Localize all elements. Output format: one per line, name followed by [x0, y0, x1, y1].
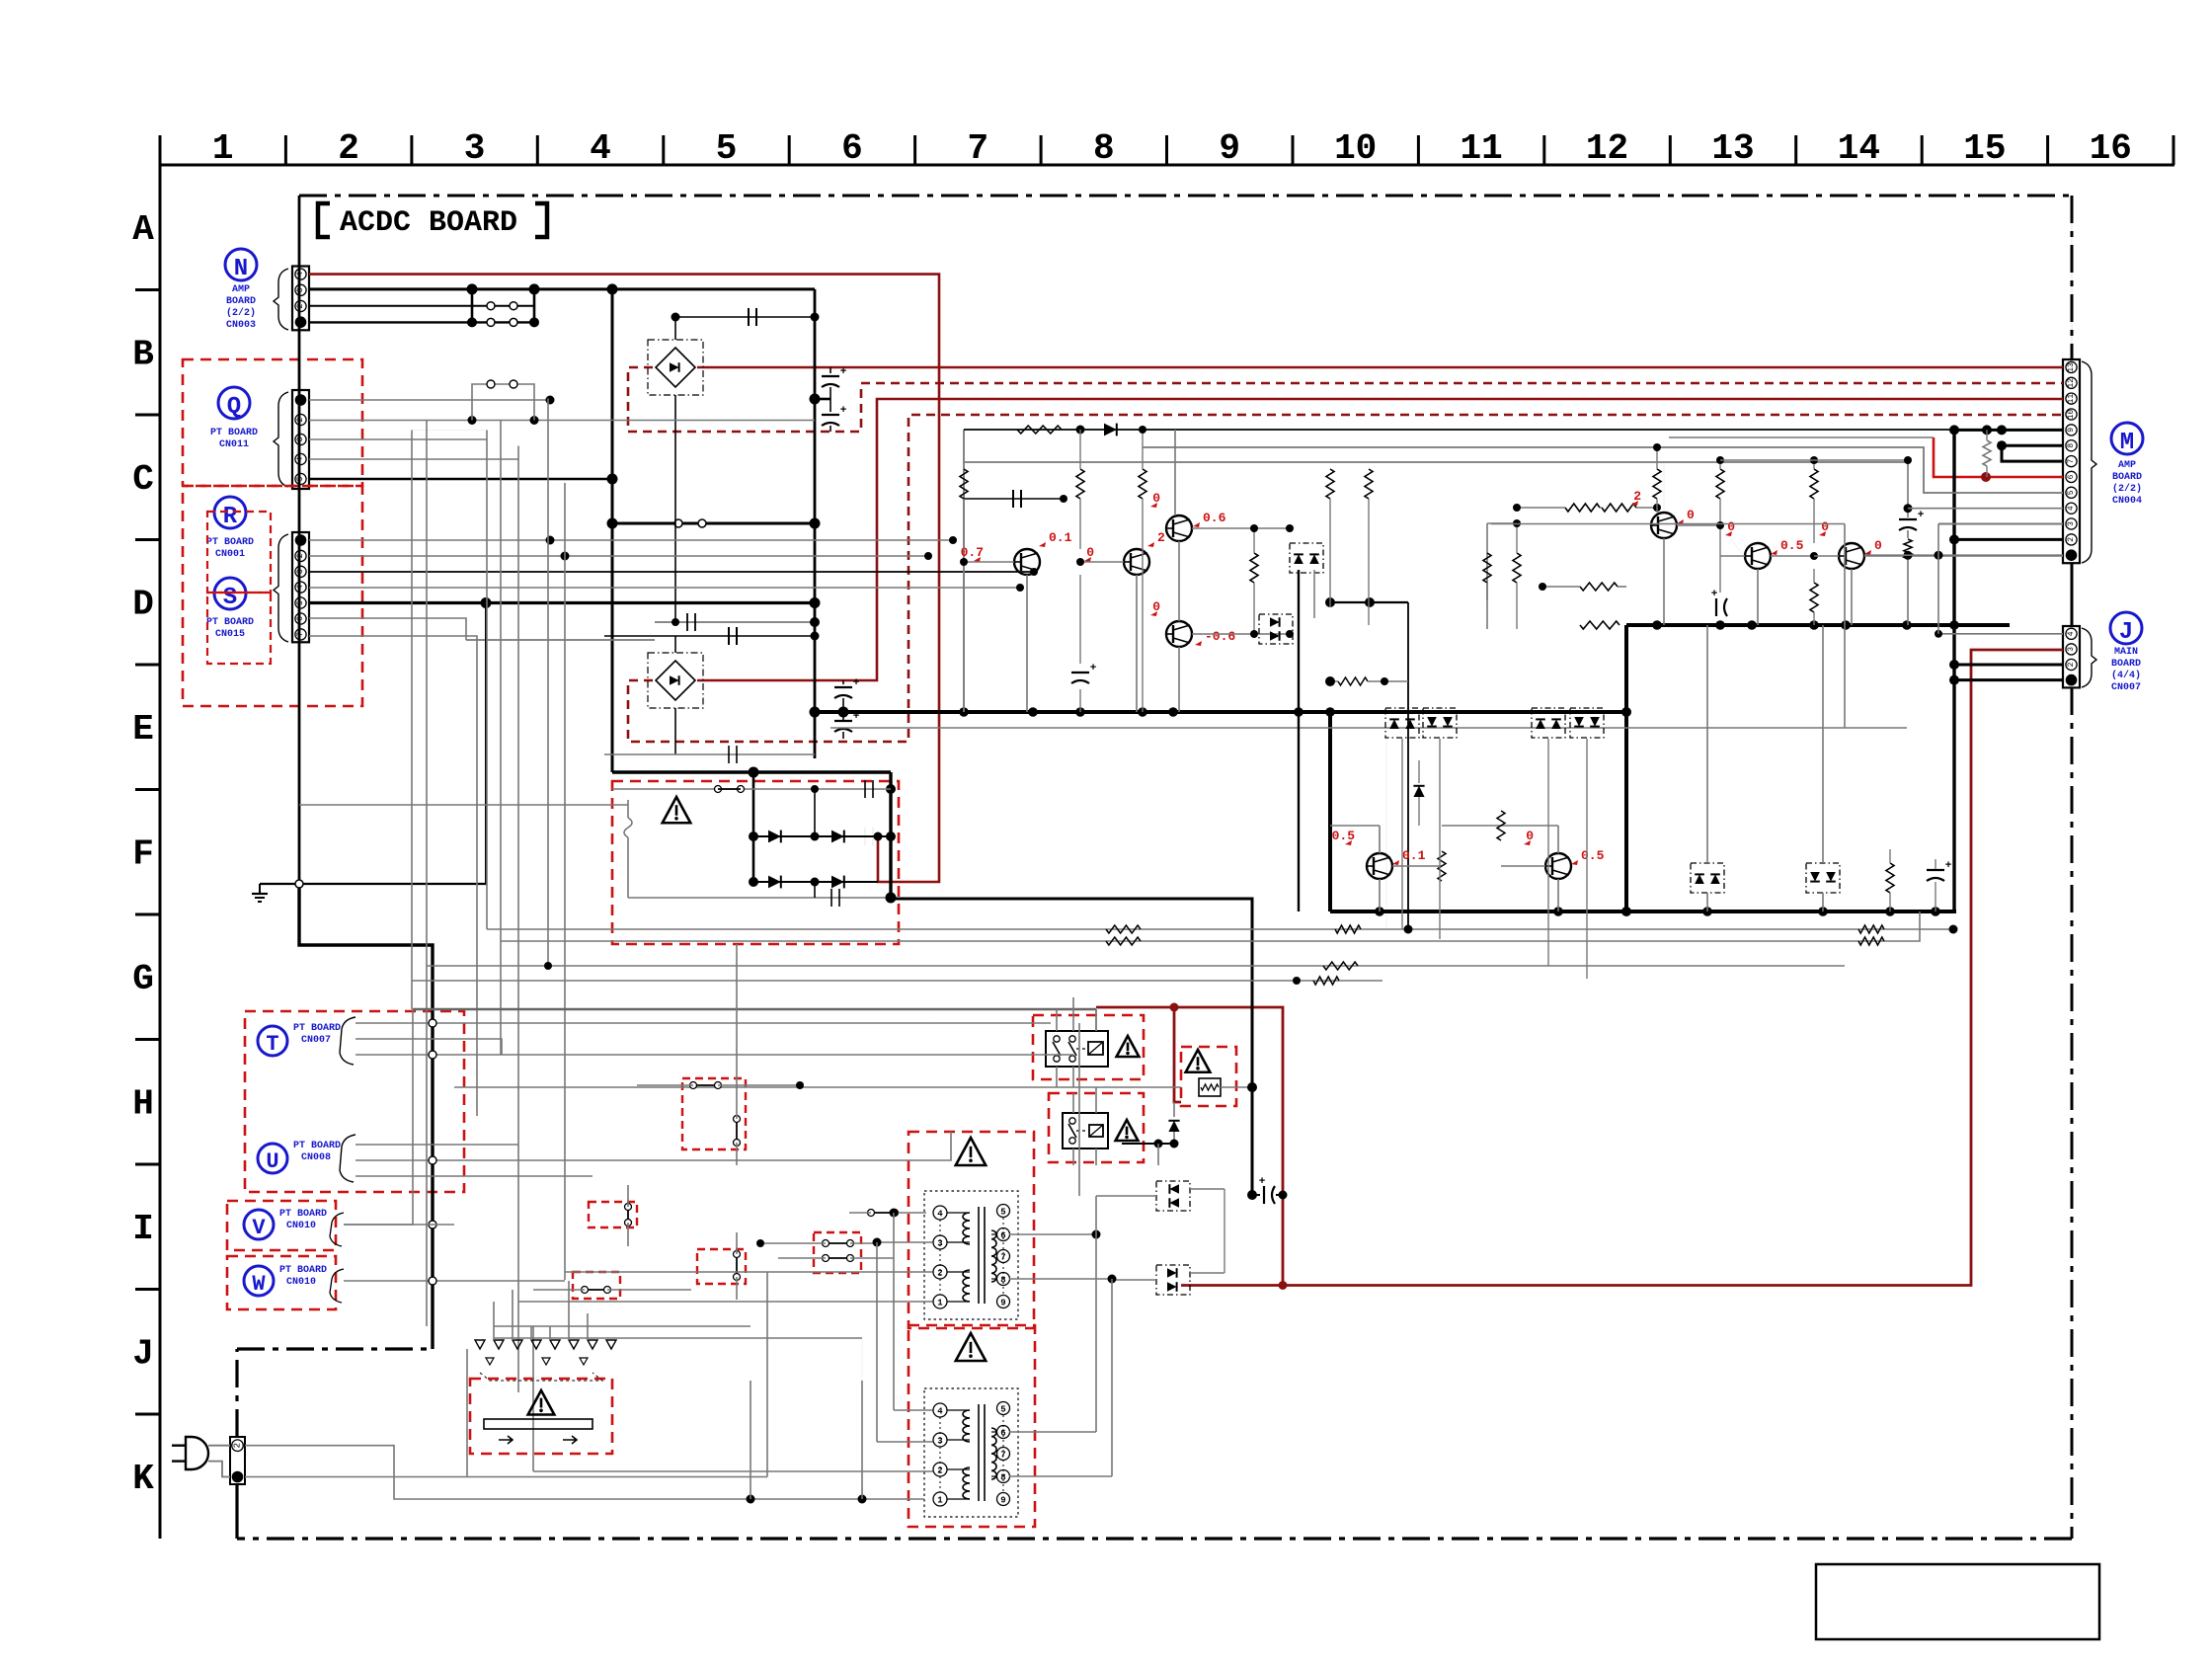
svg-text:0: 0 [1152, 599, 1160, 614]
wire pack low out [1190, 1272, 1224, 1274]
bridge2 bottom wire [674, 708, 676, 754]
red box jumper D [573, 1272, 620, 1299]
wire T2p4 [894, 1409, 933, 1411]
svg-text:11: 11 [2067, 394, 2076, 404]
svg-text:15: 15 [1963, 128, 2006, 169]
wire x1331 [1313, 570, 1315, 618]
svg-text:4: 4 [2067, 631, 2076, 636]
wire T2p3 [877, 1441, 933, 1443]
red box V [227, 1201, 336, 1250]
svg-text:ACDC BOARD: ACDC BOARD [340, 206, 517, 240]
board outline top [299, 195, 2072, 198]
connector N label [225, 249, 257, 280]
wire red relay drop [1174, 1007, 1181, 1102]
red box jumper C [697, 1249, 746, 1284]
svg-text:F: F [132, 834, 154, 875]
svg-text:I: I [132, 1209, 154, 1249]
transistor QF2 [1545, 853, 1571, 879]
res mid3 [1139, 469, 1146, 499]
svg-text:0: 0 [1152, 491, 1160, 506]
vert x888 [876, 1242, 878, 1442]
connector N strip [292, 267, 309, 331]
thermistor sym [1199, 1078, 1221, 1096]
verticals mid [1026, 575, 1028, 712]
wire Q5 [309, 478, 612, 481]
wire T1p6 [1009, 1233, 1096, 1235]
ecap F right [1927, 869, 1944, 871]
svg-text:5: 5 [296, 476, 305, 481]
svg-text:+: + [1259, 1176, 1266, 1188]
svg-text:3: 3 [296, 287, 305, 292]
dpack mid right [1259, 614, 1293, 644]
connector Q label [218, 387, 250, 419]
wire J1 [1954, 678, 2063, 681]
svg-text:CN004: CN004 [2112, 496, 2142, 507]
svg-text:PT BOARD: PT BOARD [279, 1209, 327, 1220]
svg-text:8: 8 [2067, 443, 2076, 448]
grey y466 [1720, 459, 1908, 461]
res mid6 [1250, 553, 1258, 583]
wire pack low [1112, 1279, 1156, 1281]
jumper E1 [826, 1242, 850, 1244]
svg-text:S: S [223, 585, 237, 611]
wire red dashed M12 [628, 367, 2063, 432]
wire y630 grey [655, 621, 815, 623]
svg-text:0: 0 [1086, 545, 1094, 560]
connector V label [244, 1210, 274, 1239]
svg-text:11: 11 [1460, 128, 1502, 169]
vert x1932 group [1907, 460, 1909, 517]
svg-text:AMP: AMP [2118, 460, 2136, 471]
svg-text:5: 5 [716, 128, 738, 169]
jumper A top [693, 1084, 718, 1086]
dpack bus A p2 [1423, 708, 1457, 738]
T1 warning [956, 1138, 986, 1165]
svg-text:3: 3 [296, 436, 305, 441]
wire M1 [1864, 554, 2063, 556]
wires below packs [1385, 738, 1387, 929]
svg-text:0.6: 0.6 [1203, 511, 1226, 525]
F vert cap [814, 882, 816, 898]
relay B rect [1063, 1113, 1108, 1148]
jumper D [585, 1289, 607, 1291]
wire q3 to v1 [412, 430, 487, 432]
interlock bar [484, 1419, 592, 1429]
wire E row grey [830, 727, 1907, 729]
transistor Q mid2 [1124, 549, 1149, 575]
svg-text:6: 6 [841, 128, 863, 169]
border frame ruler [159, 135, 162, 1539]
res mid5 [1365, 469, 1373, 499]
svg-text:K: K [132, 1459, 154, 1499]
relay A warning [1117, 1036, 1140, 1057]
junctions N3 [467, 283, 478, 294]
bus C y923 [1330, 910, 1956, 913]
wire red lower H [1181, 1284, 1283, 1287]
interlock contacts2 [486, 1358, 494, 1365]
jumper A vert [736, 1119, 738, 1143]
res mid2 [1076, 469, 1084, 499]
wire V [344, 1009, 413, 1225]
ladder v7 [564, 483, 566, 1280]
transistor Q mid1 [1014, 549, 1040, 575]
connector J label [2110, 612, 2142, 644]
svg-text:BOARD: BOARD [2111, 659, 2141, 670]
svg-text:M: M [2120, 430, 2134, 456]
wire R4 [309, 587, 1020, 589]
wire base2 [1080, 561, 1124, 563]
wire left bus jog [299, 884, 433, 1349]
bridge2 top wire [674, 636, 676, 653]
wire T1p2 [565, 1271, 933, 1273]
svg-text:MAIN: MAIN [2114, 647, 2138, 658]
svg-text:0: 0 [1874, 538, 1882, 553]
vert x905 [893, 1213, 895, 1410]
ladder v6 [547, 399, 549, 967]
QF wires [1379, 879, 1381, 911]
svg-text:V: V [252, 1216, 266, 1240]
bus B y633 [1626, 623, 2010, 627]
vert x1110t [1095, 1196, 1097, 1432]
F vert x763 [752, 772, 755, 882]
connector Q brace [274, 392, 288, 487]
wire red to M6 [1934, 437, 2063, 477]
svg-text:9: 9 [1000, 1496, 1005, 1506]
svg-text:9: 9 [1000, 1299, 1005, 1308]
svg-text:10: 10 [1334, 128, 1377, 169]
grey bus y1022 [413, 1008, 1096, 1011]
svg-text:CN015: CN015 [215, 629, 245, 640]
transformer T1 [924, 1191, 1018, 1319]
F cap row1 [864, 828, 866, 845]
svg-text:+: + [1945, 860, 1952, 872]
jumper E2 [826, 1257, 850, 1259]
svg-text:4: 4 [296, 585, 305, 590]
red box F region [612, 781, 899, 944]
svg-text:14: 14 [1838, 128, 1880, 169]
wire interlock drop [493, 1302, 495, 1340]
connector M strip [2063, 359, 2080, 563]
svg-text:+: + [840, 405, 847, 417]
svg-text:CN008: CN008 [301, 1152, 331, 1163]
wire S6 [309, 618, 466, 640]
interlock arrows [499, 1436, 513, 1444]
ruler ticks [159, 135, 162, 165]
red box relay A [1033, 1015, 1144, 1079]
relay A rect [1046, 1031, 1108, 1067]
svg-text:5: 5 [1000, 1208, 1005, 1218]
ladder v2 [426, 421, 428, 1327]
wire QR2 base [1720, 555, 1745, 557]
connector U label [258, 1144, 287, 1173]
right rail [1486, 523, 1488, 600]
interlock warning [528, 1390, 555, 1415]
jumper C [736, 1254, 738, 1277]
right top res pair [1565, 504, 1600, 512]
board outline right upper [2071, 196, 2074, 361]
svg-text:AMP: AMP [232, 284, 250, 295]
bus vert x1980 [1952, 430, 1955, 911]
red box jumper E [814, 1232, 861, 1273]
transistor QR2 [1745, 543, 1771, 569]
wire Q jumper link [472, 384, 534, 421]
connector J brace [2082, 628, 2096, 687]
svg-text:3: 3 [2067, 521, 2076, 526]
svg-text:BOARD: BOARD [2112, 472, 2142, 483]
dpack mid up [1290, 543, 1323, 573]
right wire out1 [1677, 524, 1720, 526]
res rv4 [1810, 583, 1818, 612]
dpack H up [1156, 1181, 1190, 1211]
cap pair bridge1 [822, 375, 839, 377]
wire T3 [355, 1054, 1073, 1056]
wire ground row [260, 883, 487, 885]
W brace [330, 1269, 344, 1303]
wire y690 res [1338, 677, 1368, 685]
wire red bridge2 to M11 [697, 399, 2063, 680]
svg-text:13: 13 [1711, 128, 1754, 169]
wire res mid6 [1253, 528, 1255, 553]
bridge1 bottom wire [674, 395, 676, 622]
wire M5 stub [1924, 492, 2063, 494]
wire R1 [309, 539, 953, 541]
svg-text:2: 2 [1157, 530, 1165, 545]
svg-text:A: A [132, 209, 154, 250]
svg-text:Q: Q [227, 394, 241, 421]
board outline right mid [2071, 563, 2074, 626]
svg-text:PT BOARD: PT BOARD [206, 617, 254, 628]
wire R2 [309, 555, 928, 557]
svg-text:J: J [132, 1334, 154, 1375]
svg-text:R: R [223, 504, 238, 530]
svg-text:+: + [840, 366, 847, 378]
wire N1 [309, 321, 534, 323]
svg-text:2: 2 [296, 417, 305, 422]
wire red relay bus [1096, 650, 2063, 1286]
wire N3 drop x620 [611, 289, 614, 772]
res rv3 [1810, 469, 1818, 499]
svg-text:5: 5 [296, 600, 305, 605]
wire x492 gnd [485, 603, 487, 885]
right net A [1487, 522, 1517, 524]
svg-text:7: 7 [296, 632, 305, 637]
svg-text:N: N [234, 256, 248, 282]
F grey bottom [628, 897, 891, 899]
svg-text:1: 1 [212, 128, 234, 169]
wire T2p6 [1009, 1431, 1096, 1433]
wire M9 [1954, 429, 2063, 432]
wire U3 [355, 1175, 592, 1177]
svg-text:6: 6 [2067, 474, 2076, 479]
AC wires [208, 1445, 230, 1447]
F diode row2 [753, 881, 878, 883]
svg-text:-0.6: -0.6 [1205, 629, 1235, 644]
jumper B [627, 1207, 629, 1223]
svg-text:12: 12 [2067, 378, 2076, 388]
transistor QF1 [1367, 853, 1392, 879]
wire Q3 [309, 438, 487, 440]
svg-text:0: 0 [1687, 508, 1695, 522]
wire T1p3 [877, 1241, 933, 1243]
F wire left in [299, 804, 628, 806]
AC out pin1 [245, 1476, 767, 1478]
AC connector strip [230, 1437, 245, 1484]
svg-text:CN007: CN007 [301, 1035, 331, 1046]
svg-text:12: 12 [1586, 128, 1628, 169]
svg-text:4: 4 [296, 272, 305, 277]
mid rail left [963, 430, 965, 712]
relay A stubs [1056, 1009, 1058, 1031]
right bot res [1580, 621, 1619, 629]
board outline right lower [2071, 687, 2074, 1539]
svg-text:CN007: CN007 [2111, 682, 2141, 693]
wire Q1 [309, 399, 550, 401]
svg-text:8: 8 [1093, 128, 1115, 169]
svg-text:2: 2 [233, 1443, 243, 1448]
svg-text:CN003: CN003 [226, 320, 256, 331]
transistor QR3 [1839, 543, 1864, 569]
connector U brace [340, 1135, 355, 1182]
svg-text:CN001: CN001 [215, 549, 245, 560]
svg-text:4: 4 [937, 1407, 943, 1417]
svg-text:CN010: CN010 [286, 1221, 316, 1231]
H ecap [1263, 1186, 1265, 1204]
wire base1 [964, 561, 1014, 563]
svg-text:0: 0 [1821, 519, 1829, 534]
svg-text:4: 4 [937, 1210, 943, 1220]
F fuse [627, 800, 629, 818]
red box thermistor [1181, 1047, 1236, 1106]
red box interlock [470, 1379, 612, 1454]
connector S label [214, 578, 246, 609]
wire T2 [355, 1039, 502, 1055]
red box S inner [207, 593, 271, 664]
res mid1 [960, 469, 968, 499]
connector M brace [2082, 361, 2096, 563]
wire y610 right seg [1330, 601, 1408, 603]
svg-text:PT BOARD: PT BOARD [293, 1141, 341, 1151]
right wires v [1663, 538, 1665, 625]
F vert mid [814, 789, 816, 836]
V brace [330, 1213, 344, 1246]
red box RS [183, 486, 362, 706]
wire M8 [2002, 444, 2063, 447]
wire v1963 [1937, 524, 1939, 634]
svg-text:CN011: CN011 [219, 439, 249, 450]
wire pack up [1096, 1195, 1156, 1197]
svg-text:(2/2): (2/2) [2112, 483, 2142, 495]
cap mid y505 [964, 498, 1064, 500]
red box jumper B [589, 1202, 637, 1227]
svg-text:10: 10 [2067, 410, 2076, 420]
bus A y721 [815, 710, 1626, 714]
thermistor warn [1186, 1050, 1211, 1072]
connector T label [258, 1026, 287, 1056]
wire M3 [1938, 523, 2063, 525]
F thick out right [891, 899, 1252, 1195]
svg-text:9: 9 [2067, 428, 2076, 433]
svg-text:E: E [132, 709, 154, 750]
dpack F right2 [1806, 863, 1840, 893]
svg-text:2: 2 [2067, 537, 2076, 542]
AC plug [186, 1437, 208, 1469]
svg-text:0.5: 0.5 [1581, 848, 1605, 863]
interlock dashes [480, 1373, 602, 1381]
red box W [227, 1256, 336, 1309]
svg-text:0.5: 0.5 [1780, 538, 1804, 553]
svg-text:7: 7 [967, 128, 988, 169]
wire M strip top [2071, 196, 2073, 361]
svg-text:D: D [132, 585, 154, 625]
T2 warning [956, 1333, 986, 1361]
G line4 [412, 980, 1382, 982]
dpack bus A p3 [1532, 708, 1565, 738]
wire J4 [1938, 633, 2063, 635]
connector R label [214, 497, 246, 528]
dpack bus A p1 [1385, 708, 1419, 738]
G line1 [487, 928, 1953, 930]
svg-text:B: B [132, 335, 154, 375]
wire R3 [309, 571, 1034, 573]
connector RS strip [292, 532, 309, 642]
svg-text:0: 0 [1526, 829, 1534, 843]
wire bus x825 [814, 289, 817, 758]
vert x1126t [1111, 1279, 1113, 1476]
G line2 [501, 911, 1920, 941]
wire y530 link [612, 522, 815, 525]
grey feed M6 [1669, 436, 1934, 438]
wire T1p4 [895, 1212, 926, 1214]
mid top line [964, 429, 1954, 431]
bridge rectifier D2 [648, 653, 703, 708]
F right verticals [1706, 625, 1708, 863]
dpack H low [1156, 1265, 1190, 1295]
svg-text:3: 3 [464, 128, 486, 169]
wire S7 [309, 636, 477, 1116]
ladder v3 [486, 431, 488, 930]
svg-text:4: 4 [296, 456, 305, 461]
title ACDC BOARD [318, 203, 330, 237]
wire Q2 [309, 420, 815, 422]
transformer T2 [924, 1388, 1018, 1517]
wire M7 [2002, 445, 2063, 461]
ladder v5 [517, 446, 519, 1393]
svg-text:CN010: CN010 [286, 1277, 316, 1288]
res rA [1513, 553, 1521, 583]
bottom right box [1816, 1564, 2099, 1639]
svg-text:13: 13 [2067, 362, 2076, 372]
svg-text:(4/4): (4/4) [2111, 670, 2141, 681]
mid grey y453 [1143, 447, 2063, 493]
connector Q strip [292, 390, 309, 489]
F grey top [612, 788, 891, 790]
wire left bus x304 [298, 196, 301, 884]
connector N brace [274, 269, 288, 330]
wire H black y1158 [1122, 1143, 1174, 1145]
mid grey y468 [964, 461, 1907, 463]
svg-text:1: 1 [937, 1299, 943, 1308]
wire U1 [355, 1144, 518, 1146]
red box relay B [1049, 1093, 1144, 1162]
ecap mid [1071, 672, 1089, 673]
junction G [544, 962, 552, 970]
red box T2 [908, 1325, 1035, 1527]
svg-text:3: 3 [296, 569, 305, 574]
vert x1240 [1224, 1189, 1225, 1273]
F thick top [612, 770, 891, 773]
red box R inner [207, 512, 271, 593]
wire T2p8 [1009, 1475, 1112, 1477]
